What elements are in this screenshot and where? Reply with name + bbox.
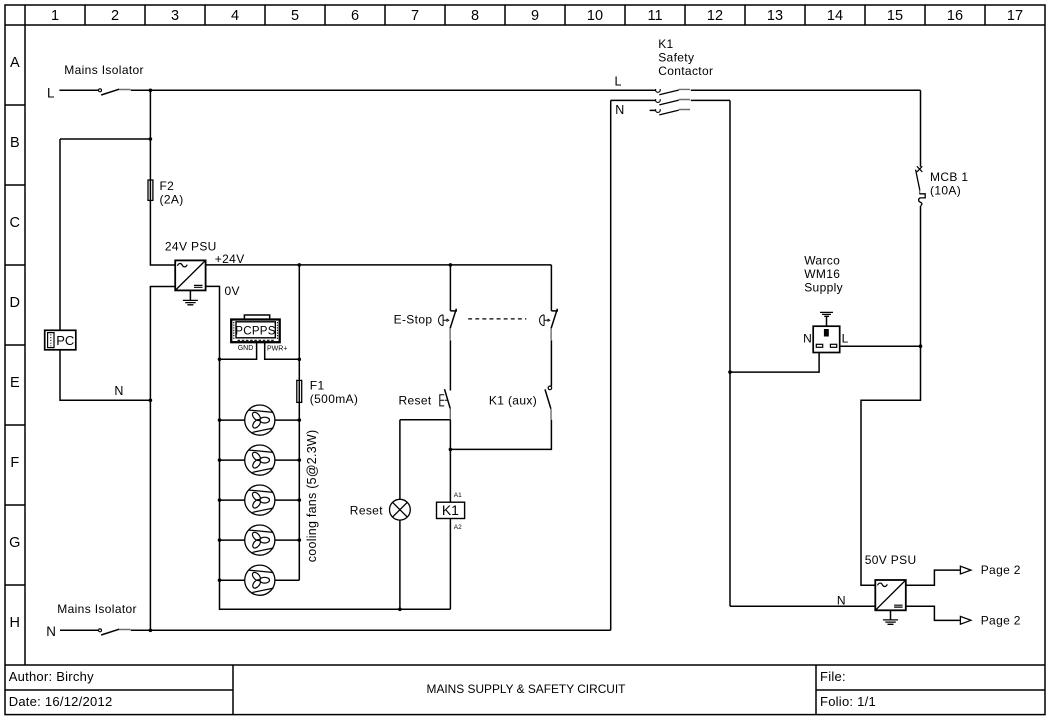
svg-text:17: 17: [1007, 8, 1023, 24]
svg-text:MCB 1: MCB 1: [930, 170, 968, 184]
svg-text:3: 3: [171, 8, 179, 24]
svg-text:12: 12: [707, 8, 723, 24]
svg-text:MAINS SUPPLY & SAFETY CIRCUIT: MAINS SUPPLY & SAFETY CIRCUIT: [427, 682, 626, 696]
svg-text:Reset: Reset: [399, 394, 432, 408]
svg-text:13: 13: [767, 8, 783, 24]
svg-text:Warco: Warco: [804, 254, 840, 268]
svg-text:Page 2: Page 2: [981, 613, 1021, 627]
svg-text:N: N: [837, 594, 846, 608]
svg-text:1: 1: [51, 8, 59, 24]
svg-text:N: N: [803, 332, 812, 346]
svg-text:C: C: [10, 215, 20, 231]
svg-text:A2: A2: [454, 524, 462, 531]
svg-text:N: N: [46, 624, 56, 639]
svg-text:WM16: WM16: [804, 267, 840, 281]
svg-text:K1: K1: [658, 37, 673, 51]
svg-text:H: H: [10, 615, 20, 631]
svg-text:E-Stop: E-Stop: [394, 313, 433, 327]
svg-text:5: 5: [291, 8, 299, 24]
svg-text:Mains Isolator: Mains Isolator: [64, 63, 144, 77]
svg-text:F1: F1: [310, 378, 325, 392]
svg-text:D: D: [10, 295, 20, 311]
svg-text:16: 16: [947, 8, 963, 24]
svg-text:PWR+: PWR+: [267, 345, 287, 352]
svg-text:6: 6: [351, 8, 359, 24]
svg-text:F2: F2: [160, 179, 175, 193]
svg-text:File:: File:: [820, 669, 846, 684]
svg-text:G: G: [9, 535, 20, 551]
svg-text:B: B: [10, 135, 20, 151]
svg-text:Author: Birchy: Author: Birchy: [9, 669, 94, 684]
svg-text:N: N: [615, 103, 624, 117]
svg-text:Contactor: Contactor: [658, 64, 713, 78]
svg-text:2: 2: [111, 8, 119, 24]
svg-text:(10A): (10A): [930, 183, 961, 197]
svg-text:Date: 16/12/2012: Date: 16/12/2012: [9, 694, 113, 709]
svg-text:Folio: 1/1: Folio: 1/1: [820, 694, 876, 709]
svg-text:N: N: [114, 384, 123, 398]
svg-text:24V PSU: 24V PSU: [165, 240, 217, 254]
svg-text:F: F: [10, 455, 19, 471]
svg-text:+24V: +24V: [215, 252, 245, 266]
svg-text:Page 2: Page 2: [981, 563, 1021, 577]
svg-text:4: 4: [231, 8, 239, 24]
svg-text:Supply: Supply: [804, 281, 843, 295]
svg-text:(2A): (2A): [160, 192, 184, 206]
svg-text:GND: GND: [238, 345, 254, 352]
svg-text:Safety: Safety: [658, 51, 694, 65]
svg-text:L: L: [615, 75, 622, 89]
svg-text:PCPPS: PCPPS: [235, 325, 276, 337]
svg-text:7: 7: [411, 8, 419, 24]
svg-text:50V PSU: 50V PSU: [865, 553, 917, 567]
svg-text:0V: 0V: [225, 284, 240, 298]
svg-text:15: 15: [887, 8, 903, 24]
svg-text:L: L: [47, 85, 54, 100]
svg-text:E: E: [10, 375, 20, 391]
svg-text:A: A: [10, 55, 20, 71]
svg-text:Reset: Reset: [350, 503, 383, 517]
svg-text:9: 9: [531, 8, 539, 24]
svg-text:10: 10: [587, 8, 603, 24]
svg-text:14: 14: [827, 8, 843, 24]
svg-text:(500mA): (500mA): [310, 392, 358, 406]
svg-text:L: L: [842, 332, 849, 346]
svg-text:K1: K1: [442, 502, 459, 518]
svg-text:8: 8: [471, 8, 479, 24]
svg-text:K1 (aux): K1 (aux): [489, 394, 537, 408]
svg-text:cooling fans (5@2.3W): cooling fans (5@2.3W): [305, 430, 319, 563]
svg-text:A1: A1: [454, 492, 462, 499]
svg-text:11: 11: [647, 8, 662, 24]
svg-text:PC: PC: [56, 333, 74, 348]
svg-text:Mains Isolator: Mains Isolator: [57, 602, 137, 616]
